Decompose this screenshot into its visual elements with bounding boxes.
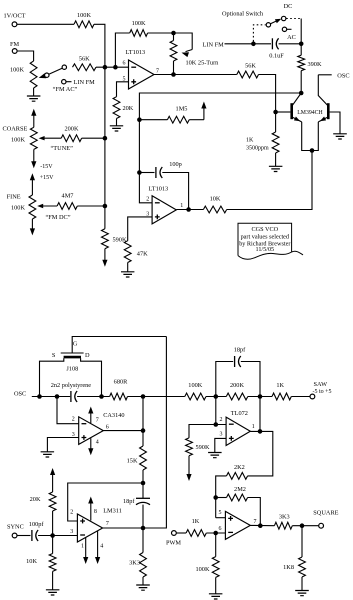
wire output to 3K3 — [250, 524, 274, 526]
wire output to 2K2 branch — [248, 431, 273, 476]
svg-text:CA3140: CA3140 — [103, 412, 124, 419]
svg-text:590K: 590K — [196, 444, 210, 451]
resistor 590K (offset to -15V) — [186, 438, 193, 456]
wire TL072a output — [250, 397, 260, 432]
Q1 emitter slant wire with arrow — [293, 117, 302, 122]
wire cap to 390K node — [279, 43, 302, 45]
input terminal SYNC — [12, 533, 17, 538]
wire 1K to ground — [275, 153, 277, 166]
svg-text:7: 7 — [96, 417, 99, 423]
svg-text:G: G — [73, 340, 78, 347]
op-amp U5 CA3140 (integrator) — [79, 417, 104, 445]
svg-text:18pf: 18pf — [234, 346, 246, 353]
svg-text:LM394CH: LM394CH — [297, 110, 323, 116]
wire LIN FM to cap — [225, 43, 272, 45]
node U1 output / trimmer bottom — [171, 72, 176, 77]
wire 3K3 to SQUARE terminal — [292, 525, 318, 527]
ground (CA3140 pin3) — [41, 452, 55, 457]
op-amp U4b TL072 (square shaper) — [225, 511, 250, 539]
power arrow +15V (20K) — [52, 474, 54, 481]
node 390K top — [299, 42, 304, 47]
wire pin 3 to ground — [215, 438, 226, 452]
resistor 590K (to -15V) — [102, 229, 109, 249]
resistor 20K (sync pullup) — [52, 511, 54, 536]
wire collector feedback line — [139, 93, 301, 203]
resistor 1M5 (linearising feedback) — [139, 119, 167, 121]
node 15K / 18pf top — [141, 481, 146, 486]
wire emitter node to 10K — [227, 151, 312, 210]
node 1K8 junction — [300, 523, 305, 528]
svg-text:590K: 590K — [113, 236, 127, 243]
switch pole contact — [266, 23, 270, 27]
wire cap to 680R — [77, 396, 110, 398]
node 4M7 junction — [103, 204, 108, 209]
node LIN FM switch junction — [251, 42, 256, 47]
wire pin 3 to ground — [47, 438, 78, 452]
op-amp U1 LT1013 (expo summer) — [129, 60, 155, 89]
resistor 1K8 (square load) — [301, 526, 303, 557]
node CA3140 output column junction — [141, 394, 146, 399]
svg-text:FM: FM — [10, 41, 20, 48]
svg-text:56K: 56K — [79, 56, 90, 63]
svg-text:3K3: 3K3 — [129, 559, 140, 566]
resistor 1K 3500ppm tempco — [272, 132, 279, 153]
svg-text:LIN FM: LIN FM — [203, 41, 225, 48]
svg-text:390K: 390K — [308, 61, 322, 68]
svg-text:2M2: 2M2 — [234, 486, 246, 493]
wiper arrow FINE, node FM DC — [41, 205, 57, 207]
node junction feedback line — [113, 65, 118, 70]
ground (Q2 base) — [333, 134, 347, 139]
dotted wire DC contact to cap right side — [286, 18, 301, 20]
wire Q2 base to ground — [330, 112, 340, 134]
svg-text:100K: 100K — [11, 137, 25, 144]
resistor 100K (pin 6 to ground) — [215, 533, 217, 557]
JFET Q3 J108 (reset switch) — [61, 352, 84, 354]
ground (pin 6 100K) — [209, 594, 223, 599]
resistor 100K (1V/OCT input) — [74, 21, 94, 28]
wire pot to ground — [33, 88, 35, 96]
power arrow (LM311 pin 1) — [85, 538, 87, 559]
svg-text:2: 2 — [72, 416, 75, 422]
resistor 15K — [142, 431, 144, 446]
svg-text:4: 4 — [100, 543, 103, 549]
wire base node down to 1K — [275, 112, 277, 132]
optional switch dotted pole wire — [253, 25, 265, 42]
svg-text:100K: 100K — [10, 66, 24, 73]
svg-text:7: 7 — [106, 521, 109, 527]
svg-text:-5 to +5: -5 to +5 — [312, 389, 331, 395]
svg-text:LM311: LM311 — [103, 508, 122, 515]
svg-text:“TUNE”: “TUNE” — [51, 145, 74, 152]
svg-text:2: 2 — [70, 509, 73, 515]
svg-text:LIN FM: LIN FM — [74, 79, 96, 86]
svg-text:OSC: OSC — [14, 391, 26, 398]
ground (47K) — [121, 272, 134, 277]
power arrow (LM311 pin 4) — [97, 531, 99, 559]
svg-text:10K: 10K — [26, 558, 37, 565]
resistor 56K (U1 output to expo base) — [237, 71, 259, 78]
input terminal PWM — [172, 531, 177, 536]
op-amp U4a TL072 (saw shaper) — [226, 417, 250, 445]
svg-text:PWM: PWM — [166, 540, 181, 547]
svg-text:Optional Switch: Optional Switch — [222, 10, 264, 17]
svg-text:1: 1 — [252, 424, 255, 430]
svg-text:D: D — [85, 352, 90, 359]
svg-text:100K: 100K — [188, 382, 202, 389]
wire rail into pin 5 — [216, 517, 226, 519]
wire 47K to ground — [127, 263, 129, 272]
svg-text:5: 5 — [219, 510, 222, 516]
svg-text:18pf: 18pf — [123, 498, 135, 505]
wire 1K8 to ground — [301, 577, 303, 591]
wire 1M5 to +15V arrow — [189, 119, 204, 121]
node TL072a output junction — [258, 394, 263, 399]
svg-text:LT1013: LT1013 — [149, 185, 169, 192]
svg-text:CGS VCO: CGS VCO — [252, 226, 279, 233]
node trimmer top junction — [171, 31, 176, 36]
svg-text:+15V: +15V — [40, 175, 54, 181]
svg-text:200K: 200K — [230, 382, 244, 389]
svg-text:“FM AC”: “FM AC” — [53, 86, 78, 93]
wire to SAW terminal — [291, 396, 309, 398]
resistor 2K2 (schmitt divider) — [227, 473, 248, 480]
capacitor 100p (integrator feedback) — [139, 172, 154, 174]
svg-text:20K: 20K — [30, 496, 41, 503]
ground (20K) — [110, 126, 123, 131]
node integrator input junction — [55, 394, 60, 399]
svg-text:100K: 100K — [196, 566, 210, 573]
wire pin 5 to 20K — [117, 82, 129, 97]
svg-text:SQUARE: SQUARE — [313, 510, 338, 517]
svg-text:100p: 100p — [169, 161, 182, 168]
node Q1 collector — [299, 91, 304, 96]
power arrow +15V (1M5) — [203, 107, 205, 120]
wire 56K to Q1 base — [259, 75, 276, 113]
node CA3140 output — [141, 428, 146, 433]
capacitor 2n2 polystyrene (integrator) — [70, 391, 72, 402]
wire 10K to ground — [52, 571, 54, 589]
svg-text:-15V: -15V — [40, 164, 53, 170]
svg-text:15K: 15K — [127, 457, 138, 464]
wire trimmer wiper branch — [174, 33, 193, 50]
node emitter junction — [310, 148, 315, 153]
wire 4M7 to summing node — [77, 205, 105, 207]
resistor 100K (feedback of U1) — [130, 30, 148, 37]
svg-text:100K: 100K — [132, 20, 146, 27]
svg-text:8: 8 — [94, 509, 97, 515]
node LM311 output — [141, 526, 146, 531]
node 200K junction — [103, 136, 108, 141]
svg-text:100K: 100K — [77, 12, 91, 19]
wire OSC output from Q2 collector — [318, 74, 331, 76]
potentiometer COARSE 100K — [33, 114, 35, 127]
svg-text:OSC: OSC — [337, 72, 349, 79]
wire LM311 pin 2 loop — [68, 483, 143, 521]
resistor 200K (coarse tune) — [61, 135, 81, 142]
svg-text:J108: J108 — [66, 366, 78, 373]
wire CA3140 output column — [103, 430, 143, 432]
svg-text:2: 2 — [146, 197, 149, 203]
svg-text:1: 1 — [81, 543, 84, 549]
svg-text:11/5/05: 11/5/05 — [255, 246, 274, 253]
svg-text:1K8: 1K8 — [283, 564, 294, 571]
wire pin 2 to OSC bus — [57, 397, 79, 424]
input terminal 1V/OCT — [12, 22, 17, 27]
wire 680R to CA3140 output node — [128, 396, 185, 398]
node TL072a output — [258, 429, 263, 434]
power arrow -15V (590K offset) — [188, 456, 190, 476]
resistor 1K (saw output) — [272, 393, 291, 400]
svg-text:2: 2 — [220, 417, 223, 423]
svg-text:100pf: 100pf — [29, 521, 45, 528]
node junction summing line — [103, 65, 108, 70]
wire 20K to ground — [116, 119, 118, 126]
svg-text:2n2 polystyrene: 2n2 polystyrene — [51, 382, 92, 389]
resistor 390K — [300, 44, 302, 55]
wiper arrow COARSE, node TUNE — [43, 137, 62, 139]
wire U1 output — [154, 74, 237, 76]
svg-text:10K 25-Turn: 10K 25-Turn — [186, 59, 220, 66]
svg-text:6: 6 — [106, 424, 109, 430]
transistor pair LM394CH — [290, 103, 293, 119]
wire pin 3 to 47K — [128, 217, 152, 241]
wire 100K to ground — [215, 577, 217, 593]
op-amp U2 LT1013 (integrator servo) — [152, 196, 176, 224]
resistor 2M2 (schmitt hysteresis) — [216, 497, 227, 499]
wire gate — [72, 337, 166, 354]
Q2 emitter slant wire with arrow — [318, 117, 327, 122]
svg-text:7: 7 — [254, 519, 257, 525]
ground (1K tempco) — [269, 166, 283, 171]
svg-text:6: 6 — [123, 60, 126, 66]
svg-text:4M7: 4M7 — [62, 192, 74, 199]
svg-text:4: 4 — [96, 439, 99, 445]
input terminal FM — [12, 49, 17, 54]
switch lever arrow to DC — [271, 20, 279, 24]
svg-text:S: S — [52, 352, 56, 359]
comparator U6 LM311 — [77, 514, 102, 542]
svg-text:1: 1 — [180, 203, 183, 209]
resistor 20K (pin 5 to ground) — [113, 97, 120, 119]
switch DC contact — [282, 16, 286, 20]
node D junction — [99, 394, 104, 399]
wire 590K branch — [189, 425, 216, 438]
power arrow -15V (590K) — [104, 249, 106, 262]
capacitor 100pf (sync input) — [17, 535, 30, 537]
power arrow +15V (LM311 pin 8) — [90, 502, 92, 521]
wire U2 output to 10K — [176, 209, 203, 211]
potentiometer 100K FM level — [30, 61, 37, 88]
svg-text:1V/OCT: 1V/OCT — [3, 12, 25, 19]
node 1M5 junction — [137, 117, 142, 122]
svg-text:3: 3 — [220, 432, 223, 438]
wire Q1 base stub — [276, 111, 291, 113]
svg-text:DC: DC — [284, 3, 293, 10]
wire LM311 output to gate column — [103, 337, 167, 529]
svg-text:3K3: 3K3 — [279, 513, 290, 520]
node 2M2 junction — [213, 495, 218, 500]
wire summing column — [104, 67, 106, 229]
capacitor 18pf (saw shaper feedback) — [216, 362, 233, 397]
node U2 output — [186, 207, 191, 212]
trimmer 10K 25-Turn — [173, 33, 175, 41]
switch AC contact — [282, 27, 286, 31]
output terminal SQUARE — [319, 523, 324, 528]
ground (LM311 3K3) — [136, 585, 150, 590]
resistor 10K (sync to ground) — [52, 536, 54, 554]
resistor 100K (ramp to saw shaper) — [185, 393, 206, 400]
wire 100K to summing node column — [94, 24, 105, 67]
resistor 3K3 (LM311 output load) — [142, 528, 144, 553]
wire input node down to pin 2 — [216, 397, 226, 425]
svg-text:3500ppm: 3500ppm — [246, 145, 269, 151]
node 100p junction — [137, 170, 142, 175]
resistor 1K (PWM input) — [177, 532, 187, 534]
svg-text:SYNC: SYNC — [7, 524, 24, 531]
resistor 680R — [110, 393, 128, 400]
node pin 6 junction — [213, 531, 218, 536]
svg-text:TL072: TL072 — [231, 410, 248, 417]
Q1 collector slant wire — [293, 93, 302, 105]
svg-text:1K: 1K — [276, 382, 284, 389]
node Q1 base junction — [273, 110, 278, 115]
resistor 56K (FM to op-amp) — [73, 64, 97, 71]
svg-text:20K: 20K — [123, 105, 134, 112]
svg-text:FINE: FINE — [7, 193, 21, 200]
svg-text:6: 6 — [219, 526, 222, 532]
wire JFET drain branch — [81, 358, 102, 396]
svg-text:1M5: 1M5 — [176, 105, 188, 112]
svg-text:200K: 200K — [65, 126, 79, 133]
svg-text:680R: 680R — [114, 379, 128, 386]
wire feedback branch up — [115, 33, 129, 67]
wire 1K to pin 6 — [206, 532, 225, 534]
resistor 47K — [124, 241, 131, 263]
ground (1K8) — [295, 591, 309, 596]
svg-text:SAW: SAW — [314, 381, 328, 388]
wire 3K3 to ground — [142, 577, 144, 585]
wire 200K to summing node — [82, 137, 105, 139]
ground (TL072a pin3) — [208, 453, 222, 458]
svg-text:47K: 47K — [137, 251, 148, 258]
node S branch junction — [37, 394, 42, 399]
wire 1V/OCT to R 100K — [17, 23, 74, 25]
svg-text:100K: 100K — [11, 205, 25, 212]
output terminal SAW — [310, 394, 315, 399]
resistor 4M7 (fine tune) — [57, 203, 77, 210]
svg-text:AC: AC — [287, 34, 296, 41]
terminal LIN FM (unconnected option) — [62, 80, 66, 84]
svg-text:COARSE: COARSE — [3, 125, 28, 132]
svg-text:0.1uF: 0.1uF — [269, 52, 284, 59]
potentiometer FINE 100K — [31, 179, 33, 195]
wire 2K2 to rail — [216, 476, 227, 518]
capacitor 18pf (hysteresis speedup) — [142, 483, 144, 498]
wire 56K to pin 6 of U1 — [96, 66, 129, 68]
node TL072b output — [258, 523, 263, 528]
pot wiper arrow (FM pot) — [41, 76, 45, 77]
ground (sync 10K) — [46, 590, 60, 595]
resistor 10K (to emitters) — [203, 206, 226, 213]
svg-text:2K2: 2K2 — [234, 464, 245, 471]
power arrow -15V (CA3140 pin 4) — [90, 438, 92, 450]
svg-text:1K: 1K — [192, 518, 200, 525]
svg-text:3: 3 — [70, 529, 73, 535]
svg-text:7: 7 — [156, 68, 159, 74]
svg-text:10K: 10K — [210, 196, 221, 203]
resistor 3K3 (square output) — [274, 522, 292, 529]
wire emitters common — [302, 122, 319, 151]
wire OSC bus left — [32, 396, 70, 398]
node pin2/590K junction — [214, 422, 219, 427]
svg-text:LT1013: LT1013 — [126, 49, 146, 56]
power arrow +15V (CA3140 pin 7) — [90, 412, 92, 423]
wire FM to pot — [17, 51, 33, 61]
capacitor 0.1uF — [271, 38, 273, 49]
resistor 200K (saw shaper feedback) — [226, 393, 248, 400]
node sync junction — [50, 533, 55, 538]
svg-text:56K: 56K — [245, 62, 256, 69]
note box CGS VCO — [238, 223, 292, 255]
wire JFET source branch — [40, 358, 64, 396]
svg-text:1K: 1K — [246, 137, 254, 143]
wire feedback to output node — [148, 32, 174, 34]
svg-text:“FM DC”: “FM DC” — [45, 214, 70, 221]
wire DC bypass down to node — [300, 19, 302, 45]
node TL072a inverting input — [214, 394, 219, 399]
ground (FM pot) — [27, 96, 41, 101]
wiper link wire with junction circles, node FM AC — [49, 68, 63, 74]
Q2 collector slant wire — [318, 75, 327, 105]
